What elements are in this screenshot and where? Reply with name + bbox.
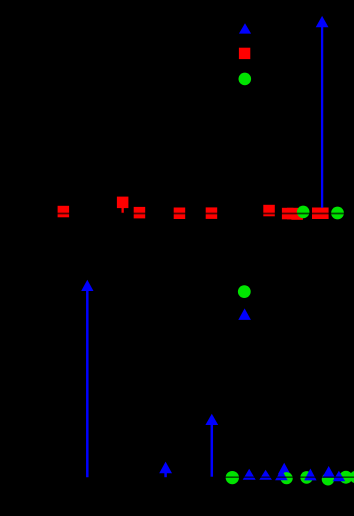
- green circle GG at right edge: [350, 471, 354, 484]
- legend marker: blue triangle: [239, 23, 251, 33]
- blue triangle TD1: [278, 463, 291, 474]
- red square S10: [312, 208, 324, 220]
- AR3 arrowhead: [205, 414, 218, 425]
- faint black data line through middle row: [57, 213, 346, 215]
- red square S5: [206, 207, 218, 219]
- blue triangle TE over GE: [304, 469, 317, 481]
- upper-limit arrow AR1 top right: stem: [321, 26, 323, 208]
- small arrow AR4: stem: [164, 472, 167, 478]
- red square S6: [263, 205, 275, 217]
- faint black data line through bottom row: [225, 476, 354, 478]
- AR1 arrowhead: [316, 16, 329, 27]
- red square S11: [317, 208, 329, 220]
- blue triangle TF2 over GF2: [333, 471, 346, 482]
- AR4 arrowhead: [159, 462, 172, 474]
- green circle GD over TD1: [281, 472, 293, 484]
- blue triangle TB: [243, 469, 256, 480]
- legend marker: red square: [239, 48, 250, 59]
- blue triangle TF1 over GF1: [322, 466, 335, 478]
- blue triangle TD2 over GD: [275, 469, 288, 480]
- red square S8: [287, 208, 299, 220]
- green circle GF1: [322, 473, 335, 486]
- error bar stem of S2: [122, 208, 124, 214]
- green circle GF2: [339, 471, 352, 484]
- red square S9: [291, 208, 303, 220]
- red square S1: [58, 206, 70, 218]
- red square S4: [174, 208, 186, 220]
- legend marker: green circle: [239, 73, 252, 86]
- long arrow AR2 bottom left: stem: [86, 290, 89, 478]
- green circle GE: [300, 471, 313, 484]
- green circle GA: [226, 471, 239, 484]
- green circle M1 over S9: [297, 206, 310, 219]
- blue triangle TC: [259, 470, 272, 480]
- green circle P1: [238, 285, 251, 298]
- arrow AR3: stem: [211, 424, 214, 477]
- blue triangle P2: [238, 308, 251, 320]
- red square S2 with error bar: [117, 197, 128, 209]
- AR2 arrowhead: [81, 280, 93, 291]
- red square S7: [282, 208, 294, 220]
- green circle M2: [331, 207, 344, 220]
- red square S3: [134, 207, 146, 219]
